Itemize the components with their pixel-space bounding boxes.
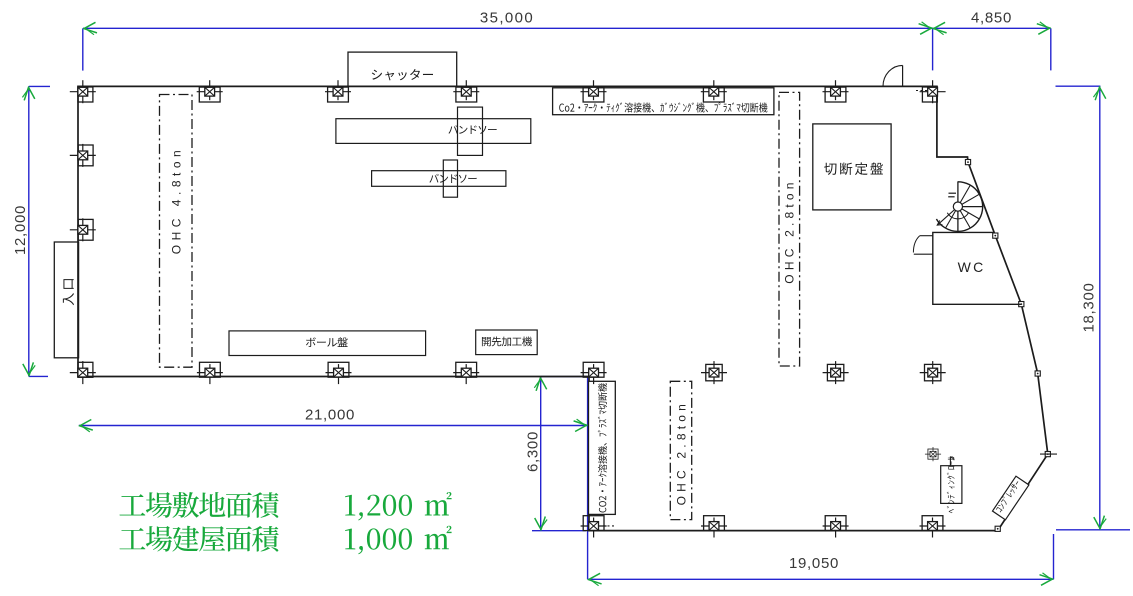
- svg-text:4,850: 4,850: [971, 10, 1012, 27]
- svg-text:21,000: 21,000: [305, 407, 355, 424]
- svg-text:19,050: 19,050: [789, 555, 839, 572]
- svg-text:35,000: 35,000: [480, 10, 534, 27]
- svg-text:6,300: 6,300: [525, 431, 542, 472]
- svg-text:W C: W C: [958, 259, 984, 275]
- svg-text:OHC 4.8ton: OHC 4.8ton: [170, 146, 184, 254]
- svg-text:OHC 2.8ton: OHC 2.8ton: [674, 400, 688, 505]
- svg-text:18,300: 18,300: [1080, 282, 1097, 332]
- svg-text:12,000: 12,000: [12, 205, 29, 255]
- svg-text:OHC 2.8ton: OHC 2.8ton: [783, 178, 797, 283]
